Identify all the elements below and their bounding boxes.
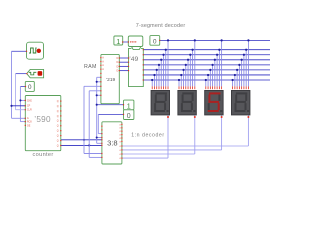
svg-text:Q: Q	[57, 125, 59, 128]
svg-text:1: 1	[127, 101, 131, 110]
svg-text:Q: Q	[57, 100, 59, 103]
svg-text:7-segment decoder: 7-segment decoder	[136, 23, 186, 29]
svg-text:1: 1	[116, 39, 120, 46]
svg-text:0: 0	[28, 84, 32, 91]
svg-text:’219: ’219	[106, 77, 115, 83]
svg-text:1:n decoder: 1:n decoder	[131, 133, 164, 139]
svg-text:’590: ’590	[34, 115, 51, 124]
svg-text:’49: ’49	[129, 56, 138, 63]
svg-text:D: D	[116, 61, 118, 64]
svg-text:RAM: RAM	[84, 64, 97, 70]
svg-text:counter: counter	[33, 152, 54, 158]
svg-text:D: D	[116, 70, 118, 73]
svg-text:0: 0	[127, 113, 131, 120]
svg-text:D: D	[116, 65, 118, 68]
svg-text:Q: Q	[57, 120, 59, 123]
svg-text:Q: Q	[57, 144, 59, 147]
svg-text:CP: CP	[27, 105, 31, 108]
svg-text:CKE: CKE	[27, 99, 32, 102]
svg-text:CLR: CLR	[27, 109, 32, 112]
svg-text:Q: Q	[57, 115, 59, 118]
svg-text:3:8: 3:8	[107, 139, 118, 148]
svg-text:0: 0	[153, 38, 157, 45]
svg-text:Q: Q	[57, 135, 59, 138]
svg-text:Q: Q	[57, 139, 59, 142]
svg-text:Q: Q	[57, 105, 59, 108]
svg-text:OE: OE	[27, 124, 31, 127]
svg-text:D: D	[116, 57, 118, 60]
svg-text:Q: Q	[57, 130, 59, 133]
svg-text:Q: Q	[57, 110, 59, 113]
svg-text:RCK: RCK	[27, 121, 32, 124]
